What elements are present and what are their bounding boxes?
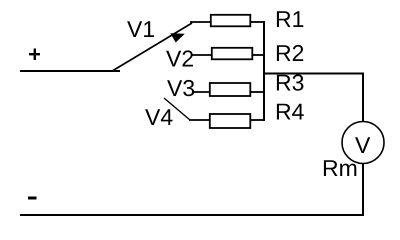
label Rm [324, 160, 356, 176]
voltmeter Rm circle [342, 122, 384, 164]
label V1 [127, 21, 154, 37]
label V4 [145, 109, 172, 125]
wire (R3 to bus) [250, 91, 265, 93]
label R2 [277, 45, 303, 61]
wire (bottom return) [20, 214, 364, 216]
wire (meter to bottom) [362, 164, 364, 217]
wire (to R1) [190, 21, 210, 23]
label R3 [277, 74, 304, 90]
wire (down to meter) [362, 73, 364, 123]
wire (output to meter branch) [263, 73, 364, 75]
wire (from + terminal) [20, 70, 120, 72]
label V2 [166, 50, 193, 66]
resistor R3 [210, 83, 251, 96]
resistor R1 [211, 15, 251, 26]
wire (R2 to bus) [252, 54, 265, 56]
wire (R4 to bus) [250, 119, 265, 121]
wire (to R3) [193, 91, 210, 93]
switch throw contact V4 [164, 98, 190, 120]
wire (to R2) [191, 54, 212, 56]
node + (positive terminal) [29, 49, 40, 61]
resistor R2 [212, 48, 253, 60]
resistor R4 [210, 114, 251, 128]
label R1 [277, 11, 303, 27]
switch V1 wiper arrow [113, 23, 192, 71]
label V (meter face) [355, 137, 370, 153]
wire (right bus) [263, 21, 265, 121]
label R4 [277, 104, 304, 120]
node - (negative terminal) [28, 197, 37, 200]
wire (to R4) [189, 119, 210, 121]
wire (R1 to bus) [250, 21, 265, 23]
label V3 [167, 80, 194, 96]
